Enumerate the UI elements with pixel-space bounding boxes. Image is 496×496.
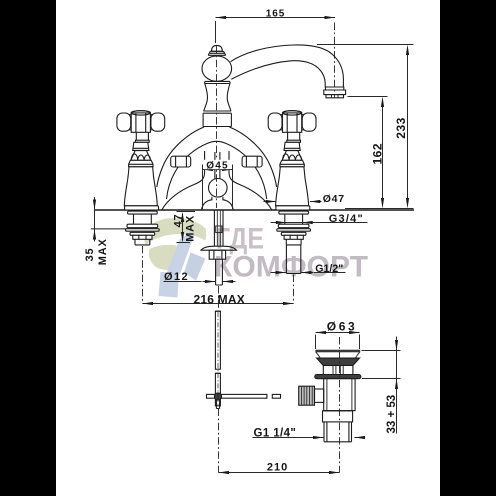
bell skirt	[124, 167, 157, 206]
svg-text:210: 210	[267, 462, 288, 474]
dimension lines	[95, 18, 414, 473]
left arm hex nut	[171, 156, 191, 167]
dim 233 line	[407, 48, 409, 206]
under-counter line left	[91, 228, 127, 230]
216max arrows	[143, 302, 154, 305]
ring 2	[203, 111, 231, 113]
pop-up clevis	[216, 226, 222, 233]
column centerline	[216, 46, 218, 209]
faucet ball body	[202, 56, 232, 81]
left bridge arm upper	[157, 127, 204, 187]
handle stem	[136, 132, 150, 142]
spout centerline	[334, 23, 336, 98]
pivot ball	[214, 393, 221, 400]
drain washer hatched	[315, 375, 361, 379]
watermark logo blue foot	[159, 272, 180, 298]
bell deck washer	[128, 211, 158, 214]
watermark logo green band	[144, 218, 206, 297]
G1 1/4 arrows	[313, 436, 324, 439]
svg-text:162: 162	[370, 143, 384, 165]
svg-text:Ø63: Ø63	[327, 320, 357, 334]
drain knurl connector	[315, 389, 324, 402]
pop-up rod above ball	[215, 152, 220, 179]
dim G1/2	[271, 272, 346, 274]
drain tail pipe	[324, 422, 352, 442]
dim 162 line	[382, 99, 384, 206]
svg-text:КОМФОРТ: КОМФОРТ	[214, 250, 368, 283]
aerator	[326, 87, 344, 90]
210 arrows	[219, 471, 230, 474]
dim G1 1/4	[253, 437, 364, 439]
right bridge arm upper	[229, 127, 276, 187]
svg-text:233: 233	[394, 117, 408, 139]
right shank G1/2 pipe	[286, 245, 300, 274]
pop-up dome	[202, 200, 234, 210]
drain body	[324, 379, 355, 411]
lift rod joint	[215, 372, 220, 374]
base flank left	[162, 151, 205, 210]
dim d12	[164, 281, 202, 283]
svg-text:G1/2": G1/2"	[315, 263, 343, 275]
lift rod centerline	[218, 409, 220, 473]
right shank centerline	[293, 275, 295, 304]
shank pipe	[134, 214, 152, 224]
svg-text:Ø12: Ø12	[164, 271, 189, 283]
watermark logo blue wedge	[184, 253, 206, 281]
dimension texts	[84, 8, 408, 473]
drain flange rim	[315, 350, 360, 351]
deck line	[94, 209, 414, 211]
dim 33+53	[396, 337, 398, 434]
dim 210	[219, 472, 340, 474]
d45 arrows	[203, 168, 214, 171]
faucet finial cap	[212, 45, 223, 51]
dim 35max	[94, 197, 96, 242]
dim d63	[316, 332, 360, 334]
pop-up shaft below deck	[214, 210, 223, 246]
shank washers	[127, 224, 158, 228]
spout outline	[231, 45, 344, 87]
svg-text:33 + 53: 33 + 53	[386, 395, 398, 434]
base cylinder	[203, 113, 231, 126]
centerlines dash-dot	[143, 23, 340, 473]
svg-text:35: 35	[84, 248, 96, 262]
dim G3/4 line	[271, 222, 368, 224]
pop-up wing flange	[201, 246, 237, 250]
G1/2 arrows	[276, 271, 287, 274]
arrowheads	[93, 16, 409, 474]
d12 arrows	[205, 280, 216, 283]
bonnet collar	[133, 142, 149, 150]
svg-text:Ø45: Ø45	[206, 160, 229, 171]
lift rod lower segment	[215, 373, 220, 406]
165 arrows	[216, 16, 227, 19]
drain tailpiece nut	[323, 411, 353, 422]
left cross handle	[117, 111, 165, 245]
svg-text:216 MAX: 216 MAX	[194, 293, 245, 307]
rod below ball	[216, 400, 219, 409]
dim 47max	[182, 214, 184, 241]
233 arrows	[406, 45, 409, 56]
label d45 knockout	[204, 160, 231, 169]
left black strip	[0, 0, 56, 496]
svg-text:165: 165	[266, 8, 286, 19]
shank tail	[135, 239, 150, 245]
pop-up neck	[212, 197, 223, 201]
pop-up rod Ø12	[216, 259, 223, 285]
svg-text:G1 1/4": G1 1/4"	[254, 427, 297, 439]
lift rod top segment	[215, 310, 220, 312]
left shank centerline	[142, 246, 144, 304]
svg-text:47: 47	[172, 214, 184, 228]
drain neck	[323, 365, 353, 374]
pop-up hex	[209, 250, 225, 259]
d63 arrows	[316, 331, 327, 334]
47max arrows	[181, 212, 184, 223]
bonnet flare ring	[129, 160, 153, 166]
bridge arm lower U	[167, 141, 267, 199]
watermark logo blue stroke	[167, 232, 195, 275]
base flank right	[229, 151, 272, 210]
drain flange cone hatched	[317, 358, 360, 365]
dim d45	[203, 169, 233, 171]
35max arrows	[93, 200, 96, 211]
bell base plate	[125, 206, 159, 210]
drain knurled nut	[299, 386, 315, 405]
watermark logo green wedge	[149, 245, 187, 270]
svg-text:MAX: MAX	[185, 215, 197, 242]
shank hex nut	[133, 235, 152, 239]
162 arrows	[381, 97, 384, 108]
horizontal pivot rod	[207, 394, 267, 398]
drain centerline	[339, 337, 341, 473]
right cross handle	[268, 111, 316, 245]
dim 165 line	[216, 17, 336, 19]
dim 216max	[143, 303, 294, 305]
vase column	[204, 84, 231, 112]
svg-text:MAX: MAX	[97, 238, 109, 265]
svg-text:Ø47: Ø47	[323, 193, 345, 205]
G3/4 arrows	[276, 221, 287, 224]
lift rod internal centerline	[217, 312, 219, 405]
right black strip	[440, 0, 496, 496]
right arm hex nut	[242, 156, 262, 167]
pop-up ball	[209, 179, 228, 198]
pop-up rod centerline gap	[218, 286, 220, 310]
d47 arrows	[266, 200, 277, 203]
dim d47 leaders	[264, 201, 277, 203]
ring under ball	[205, 81, 231, 83]
33+53 arrows	[395, 340, 398, 351]
bonnet crown	[131, 151, 151, 161]
svg-text:G3/4": G3/4"	[329, 213, 364, 225]
